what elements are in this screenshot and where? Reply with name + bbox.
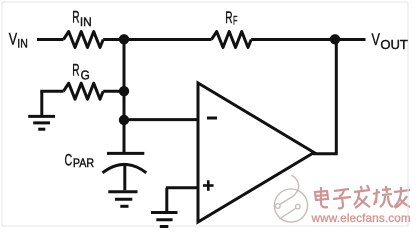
op-amp triangle [198, 83, 314, 222]
wire node D to op-amp inverting input [124, 118, 198, 121]
capacitor CPAR top plate [107, 152, 144, 155]
wire RG to node C [103, 90, 124, 93]
resistor RF [212, 32, 252, 48]
label CPAR [65, 151, 95, 170]
wire down to ground at plus input [165, 188, 168, 211]
label VIN [9, 31, 28, 51]
watermark text white emboss [316, 186, 411, 209]
svg-text:PAR: PAR [73, 158, 94, 170]
watermark text 电子发烧友 [315, 185, 410, 208]
svg-text:R: R [72, 9, 79, 27]
node A junction dot [119, 34, 129, 44]
svg-text:V: V [9, 31, 17, 49]
wire RF to VOUT [251, 38, 365, 41]
ground left below RG [28, 91, 55, 129]
svg-text:V: V [372, 31, 380, 49]
wire VIN to RIN [37, 38, 64, 41]
svg-text:R: R [225, 9, 232, 27]
ground below CPAR [108, 192, 137, 207]
svg-text:C: C [65, 151, 73, 169]
wire non-inverting input [166, 186, 198, 189]
svg-text:F: F [233, 16, 238, 28]
watermark logo white emboss [276, 176, 309, 223]
svg-text:IN: IN [17, 39, 28, 51]
svg-text:IN: IN [80, 17, 92, 29]
wire capacitor to ground [123, 166, 126, 191]
resistor RIN [64, 32, 104, 48]
wire op-amp output [313, 39, 336, 154]
svg-text:www.elecfans.com: www.elecfans.com [311, 211, 411, 225]
wire RIN to node A and on to RF [103, 38, 211, 41]
resistor RG [64, 83, 104, 99]
svg-text:OUT: OUT [380, 38, 408, 52]
wire ground to RG [40, 90, 63, 93]
label RIN [72, 9, 92, 30]
svg-text:R: R [72, 62, 79, 80]
label RG [72, 62, 89, 83]
wire node A down to capacitor [123, 39, 126, 153]
node D junction dot [119, 115, 129, 125]
label VOUT [372, 31, 409, 52]
minus sign inverting input [207, 117, 217, 120]
node C junction dot [119, 86, 129, 96]
node B output junction dot [330, 34, 340, 44]
plus sign non-inverting input [203, 180, 214, 191]
watermark logo [274, 175, 307, 222]
svg-text:G: G [81, 67, 90, 82]
ground at plus input [151, 213, 178, 227]
capacitor CPAR curved plate [103, 164, 147, 172]
label RF [225, 9, 237, 28]
